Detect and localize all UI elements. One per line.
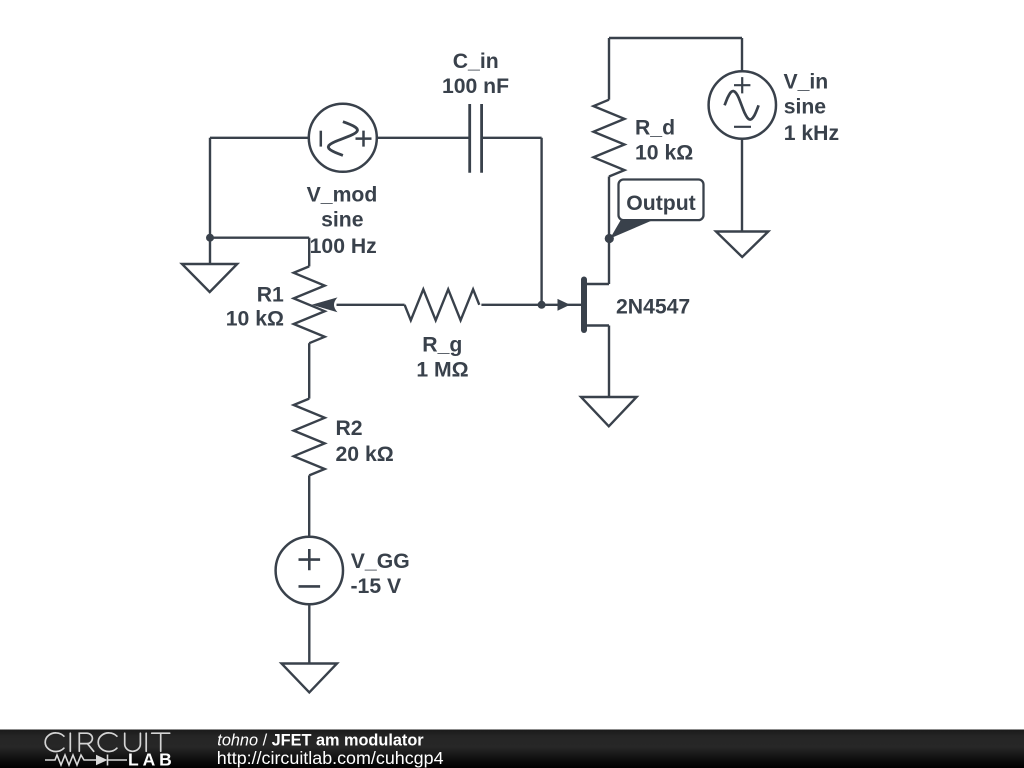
svg-text:R_g: R_g [422, 333, 462, 356]
svg-text:V_in: V_in [784, 71, 829, 94]
svg-text:10 kΩ: 10 kΩ [635, 141, 693, 164]
svg-text:1 kHz: 1 kHz [784, 122, 839, 145]
svg-text:20 kΩ: 20 kΩ [336, 443, 394, 466]
svg-text:1 MΩ: 1 MΩ [416, 359, 468, 382]
svg-text:2N4547: 2N4547 [616, 296, 690, 319]
svg-text:http://circuitlab.com/cuhcgp4: http://circuitlab.com/cuhcgp4 [217, 748, 444, 768]
svg-text:Output: Output [626, 192, 695, 215]
svg-text:sine: sine [321, 208, 364, 231]
svg-text:C_in: C_in [453, 50, 499, 73]
svg-text:tohno / JFET am modulator: tohno / JFET am modulator [217, 731, 424, 749]
svg-text:R_d: R_d [635, 116, 675, 139]
svg-text:sine: sine [784, 95, 827, 118]
svg-text:V_mod: V_mod [307, 184, 378, 207]
svg-text:100 nF: 100 nF [442, 75, 509, 98]
svg-text:V_GG: V_GG [351, 550, 410, 573]
svg-text:10 kΩ: 10 kΩ [226, 308, 284, 331]
svg-text:-15 V: -15 V [351, 575, 402, 598]
svg-text:R1: R1 [257, 284, 284, 307]
svg-text:R2: R2 [336, 417, 363, 440]
svg-text:100 Hz: 100 Hz [310, 235, 377, 258]
svg-text:LAB: LAB [128, 750, 176, 768]
